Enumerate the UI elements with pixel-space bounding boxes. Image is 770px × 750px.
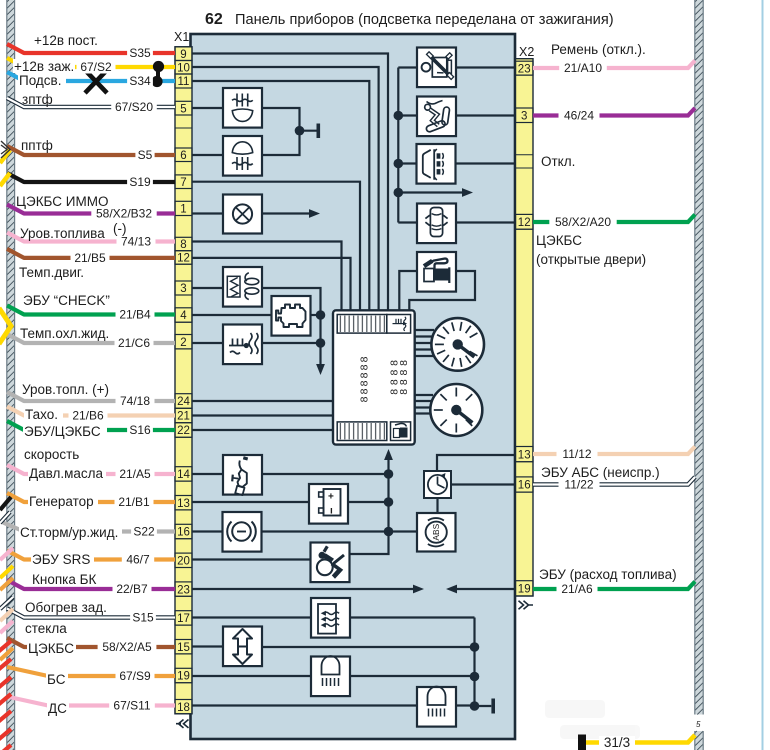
wire fuel right to cluster bbox=[409, 271, 475, 312]
svg-text:8: 8 bbox=[359, 356, 371, 362]
label high beam bbox=[47, 701, 69, 715]
terminal bar bottom bbox=[491, 699, 495, 714]
indicator: fuel pump bbox=[417, 252, 456, 292]
indicator: clock bbox=[424, 471, 451, 498]
wire pin23 outgoing arrow bbox=[192, 588, 414, 590]
indicator: illumination lamp bbox=[223, 195, 262, 234]
svg-text:+: + bbox=[328, 492, 334, 503]
wire pin2 to coolant indicator bbox=[192, 342, 223, 344]
svg-text:11/12: 11/12 bbox=[562, 447, 591, 461]
wire pin1 to illumination lamp bbox=[192, 212, 223, 214]
wire engine indicator to rail bbox=[311, 314, 321, 316]
svg-text:+12в заж.: +12в заж. bbox=[14, 59, 74, 74]
svg-text:скорость: скорость bbox=[24, 447, 79, 462]
label +12v ign bbox=[13, 59, 75, 73]
svg-text:Обогрев зад.: Обогрев зад. bbox=[25, 600, 107, 615]
wire pin7 to cluster bbox=[192, 182, 360, 312]
label 21/B6 bbox=[69, 409, 108, 422]
svg-text:Темп.двиг.: Темп.двиг. bbox=[19, 265, 84, 280]
svg-text:ДС: ДС bbox=[48, 701, 67, 716]
svg-text:46/24: 46/24 bbox=[564, 109, 594, 123]
svg-text:1: 1 bbox=[180, 204, 186, 216]
bus down right bbox=[475, 618, 492, 707]
wire illumination S34 bbox=[7, 72, 175, 81]
svg-text:3: 3 bbox=[521, 111, 527, 123]
svg-text:22: 22 bbox=[177, 425, 190, 437]
wire pin3 to glow indicator bbox=[192, 287, 223, 289]
svg-text:8: 8 bbox=[359, 388, 371, 394]
svg-text:ЭБУ “CHECK”: ЭБУ “CHECK” bbox=[23, 293, 110, 308]
svg-text:зптф: зптф bbox=[22, 92, 53, 107]
svg-text:11: 11 bbox=[178, 76, 190, 88]
modification link ignition to illumination bbox=[156, 67, 160, 82]
instrument cluster unit bbox=[333, 310, 415, 444]
wire junction to terminal bbox=[300, 130, 317, 132]
wire pin8 to cluster bbox=[192, 242, 342, 313]
indicator: brake bbox=[223, 512, 262, 552]
svg-text:Панель приборов (подсветка пер: Панель приборов (подсветка переделана от… bbox=[235, 12, 614, 28]
label 58/X2/B32 bbox=[91, 207, 156, 220]
indicator: seat belt disabled bbox=[417, 48, 456, 88]
svg-text:12: 12 bbox=[518, 217, 531, 229]
label 67/S20 bbox=[111, 101, 157, 114]
svg-text:67/S9: 67/S9 bbox=[119, 669, 151, 683]
label S16 bbox=[127, 424, 153, 437]
svg-text:5: 5 bbox=[696, 720, 701, 729]
indicator: open doors bbox=[417, 204, 456, 244]
svg-text:S35: S35 bbox=[129, 46, 151, 60]
page edge line bbox=[762, 0, 764, 750]
label srs bbox=[31, 552, 94, 566]
indicator: low beam bbox=[311, 656, 350, 696]
right rail down bbox=[397, 68, 399, 223]
wire cekbs 58/X2/A5 bbox=[7, 638, 175, 647]
indicator: coolant temperature bbox=[223, 325, 262, 365]
wire lowbeam indicator to bus bbox=[350, 675, 475, 677]
wire pads to X2 bbox=[456, 162, 516, 164]
svg-text:X2: X2 bbox=[519, 45, 534, 59]
svg-text:S16: S16 bbox=[129, 423, 151, 437]
wire doors left bbox=[398, 221, 417, 223]
svg-text:15: 15 bbox=[177, 642, 190, 654]
svg-text:62: 62 bbox=[205, 11, 223, 28]
svg-text:ЦЭКБС: ЦЭКБС bbox=[28, 641, 74, 656]
wire X2 pin19 incoming arrow bbox=[456, 588, 516, 590]
wire X2 pin3 46/24 bbox=[533, 108, 695, 116]
label generator bbox=[28, 494, 98, 508]
svg-text:21/A6: 21/A6 bbox=[561, 582, 593, 596]
svg-text:10: 10 bbox=[177, 63, 190, 75]
wire battery indicator to rail bbox=[348, 501, 389, 503]
wire brake fluid S22 bbox=[3, 523, 175, 532]
label 21/B5 bbox=[71, 251, 110, 264]
wire +12v battery S35 bbox=[7, 44, 175, 53]
wire X2 pin12 58/X2/A20 bbox=[533, 215, 695, 223]
svg-text:8: 8 bbox=[398, 389, 410, 395]
node rail/coolant bbox=[316, 338, 326, 348]
label 74/13 bbox=[117, 235, 156, 248]
svg-text:46/7: 46/7 bbox=[126, 553, 150, 567]
indicator: front fog lamp bbox=[223, 136, 262, 176]
svg-text:Тахо.: Тахо. bbox=[25, 407, 58, 422]
node rail/battery bbox=[384, 497, 394, 507]
svg-text:24: 24 bbox=[177, 396, 190, 408]
instrument panel unit body bbox=[191, 34, 516, 739]
svg-text:13: 13 bbox=[518, 449, 531, 461]
terminal bar bbox=[316, 124, 320, 139]
svg-text:16: 16 bbox=[518, 480, 531, 492]
label 74/18 bbox=[116, 395, 155, 408]
label 46/7 bbox=[122, 553, 154, 566]
node rail/brake bbox=[384, 527, 394, 537]
wire rear fog 67/S20 bbox=[7, 98, 175, 107]
wire fuel level low 74/13 bbox=[7, 233, 175, 242]
svg-text:21/B1: 21/B1 bbox=[118, 495, 150, 509]
svg-text:67/S2: 67/S2 bbox=[80, 60, 112, 74]
svg-text:Подсв.: Подсв. bbox=[19, 73, 61, 88]
node rail/engine bbox=[316, 310, 326, 320]
wire +12v ignition 67/S2 bbox=[7, 58, 175, 67]
node bus/lowbeam bbox=[470, 672, 480, 682]
wire beltX to rail bbox=[398, 66, 417, 68]
label 58/X2/A5 bbox=[98, 641, 157, 654]
svg-text:14: 14 bbox=[177, 469, 190, 481]
wire pin19 to lowbeam indicator bbox=[192, 675, 311, 677]
svg-text:S5: S5 bbox=[138, 148, 153, 162]
wire X2 pin13 11/12 bbox=[533, 447, 695, 455]
label S5 bbox=[135, 149, 154, 162]
wire pin22 to cluster bbox=[192, 429, 334, 431]
connector X1 bbox=[174, 30, 192, 714]
svg-text:ЭБУ SRS: ЭБУ SRS bbox=[32, 552, 90, 567]
X2 continuation chevrons bbox=[519, 601, 534, 609]
indicator: high beam bbox=[417, 687, 456, 727]
left harness bar bbox=[7, 0, 15, 750]
wire clock to X2 pin13 bbox=[437, 455, 516, 472]
wire X2 pin23 21/A10 bbox=[533, 61, 695, 69]
wire SRS 46/7 bbox=[7, 551, 175, 560]
svg-text:X1: X1 bbox=[174, 30, 189, 44]
svg-text:ЦЭКБС ИММО: ЦЭКБС ИММО bbox=[16, 194, 108, 209]
label 21/A5 bbox=[116, 468, 155, 481]
X1 continuation chevrons bbox=[176, 720, 189, 728]
wire trip button 22/B7 bbox=[7, 580, 175, 589]
wire pin5 to rear-fog lamp bbox=[192, 107, 223, 109]
wire pin12 to cluster bbox=[192, 258, 351, 312]
svg-text:пптф: пптф bbox=[21, 138, 53, 153]
wire low beam 67/S9 bbox=[7, 667, 175, 676]
white edge stub bbox=[0, 512, 10, 523]
svg-text:74/18: 74/18 bbox=[120, 394, 150, 408]
wire fuel level 74/18 bbox=[7, 392, 175, 401]
wire S19 bbox=[7, 173, 175, 182]
indicator: fasten seat belt bbox=[417, 97, 456, 137]
node rail/person bbox=[394, 111, 404, 121]
svg-text:S22: S22 bbox=[133, 525, 155, 539]
svg-text:23: 23 bbox=[518, 63, 531, 75]
svg-text:23: 23 bbox=[177, 584, 190, 596]
wire heater S15 bbox=[7, 609, 175, 618]
disconnect cross bbox=[85, 70, 107, 93]
label cekbs bbox=[27, 641, 76, 655]
wire pads left bbox=[398, 162, 416, 164]
wire front-fog to junction bbox=[262, 131, 300, 155]
cluster to speedometer wires bbox=[415, 329, 435, 331]
svg-text:9: 9 bbox=[180, 49, 186, 61]
wire pin21 to cluster bbox=[192, 414, 334, 416]
wire pin16 to brake indicator bbox=[192, 530, 223, 532]
svg-text:13: 13 bbox=[177, 498, 190, 510]
label oil pressure bbox=[28, 466, 106, 480]
svg-text:6: 6 bbox=[180, 150, 186, 162]
indicator: oil pressure bbox=[223, 455, 262, 495]
label 67/S11 bbox=[109, 699, 155, 712]
svg-text:18: 18 bbox=[177, 702, 190, 714]
svg-text:Уров.топлива: Уров.топлива bbox=[20, 226, 105, 241]
svg-text:22/B7: 22/B7 bbox=[116, 582, 148, 596]
label S22 bbox=[131, 525, 157, 538]
svg-text:ЭБУ/ЦЭКБС: ЭБУ/ЦЭКБС bbox=[24, 424, 101, 439]
wire pin6 to front-fog lamp bbox=[192, 154, 223, 156]
wire tacho 21/B6 bbox=[7, 407, 175, 416]
svg-text:16: 16 bbox=[177, 527, 190, 539]
wire generator 21/B1 bbox=[7, 493, 175, 502]
wire belt person to X2 pin3 bbox=[456, 114, 516, 116]
wire doors to X2 pin12 bbox=[456, 221, 516, 223]
node rail/arrow bbox=[394, 188, 404, 198]
label tacho bbox=[24, 407, 63, 421]
svg-text:ı: ı bbox=[330, 506, 333, 517]
svg-text:8: 8 bbox=[398, 360, 410, 366]
indicator: up/down arrows bbox=[223, 627, 262, 667]
indicator: battery / generator bbox=[309, 484, 348, 524]
indicator: brake pads bbox=[417, 144, 456, 184]
wire heater indicator to bus bbox=[350, 616, 475, 618]
wire check engine 21/B4 bbox=[7, 306, 175, 315]
wire pin14 to oil indicator bbox=[192, 473, 223, 475]
svg-text:21: 21 bbox=[177, 411, 190, 423]
svg-text:стекла: стекла bbox=[25, 621, 67, 636]
svg-text:Ст.торм/ур.жид.: Ст.торм/ур.жид. bbox=[20, 525, 118, 540]
speedometer gauge bbox=[431, 318, 484, 371]
label 21/B1 bbox=[115, 496, 154, 509]
label 22/B7 bbox=[113, 583, 152, 596]
node rail/oil bbox=[384, 469, 394, 479]
svg-text:74/13: 74/13 bbox=[121, 235, 151, 249]
svg-text:19: 19 bbox=[518, 584, 531, 596]
wire pin20 to SRS indicator bbox=[192, 558, 311, 560]
svg-text:8: 8 bbox=[180, 239, 186, 251]
ground wire 31/3 bbox=[578, 735, 586, 750]
wire pin17 to heater indicator bbox=[192, 616, 311, 618]
wire oil pressure 21/A5 bbox=[7, 465, 175, 474]
wire X2 pin16 11/22 bbox=[533, 477, 695, 485]
svg-text:21/B6: 21/B6 bbox=[72, 409, 104, 423]
svg-text:8: 8 bbox=[359, 380, 371, 386]
label S15 bbox=[130, 611, 156, 624]
connector X2 bbox=[516, 45, 535, 596]
svg-text:21/C6: 21/C6 bbox=[118, 336, 150, 350]
wire clock to ABS bbox=[436, 498, 438, 513]
yellow edge stubs top bbox=[0, 150, 10, 163]
label S34 bbox=[127, 75, 153, 88]
label 21/B4 bbox=[116, 308, 155, 321]
indicator: engine (check) bbox=[272, 296, 311, 336]
label 67/S2 bbox=[77, 61, 116, 74]
wire pin4 to engine indicator bbox=[192, 314, 272, 316]
svg-text:8: 8 bbox=[359, 372, 371, 378]
wire brake indicator to ABS bbox=[262, 530, 418, 532]
svg-text:Откл.: Откл. bbox=[541, 154, 575, 169]
svg-text:31/3: 31/3 bbox=[604, 735, 630, 750]
node rail/pads bbox=[394, 159, 404, 169]
wire pin18 to highbeam indicator bbox=[192, 704, 417, 706]
svg-text:Давл.масла: Давл.масла bbox=[29, 466, 104, 481]
svg-text:20: 20 bbox=[177, 556, 190, 568]
svg-text:ЭБУ АБС (неиспр.): ЭБУ АБС (неиспр.) bbox=[541, 465, 660, 480]
wire high beam 67/S11 bbox=[7, 697, 175, 706]
svg-text:Ремень (откл.).: Ремень (откл.). bbox=[551, 42, 646, 57]
svg-text:21/B5: 21/B5 bbox=[74, 251, 106, 265]
faint watermark bbox=[545, 700, 640, 739]
svg-text:S19: S19 bbox=[129, 175, 151, 189]
label 67/S9 bbox=[116, 670, 155, 683]
cluster to tachometer wires bbox=[415, 394, 434, 396]
edge wire stubs bbox=[0, 548, 13, 560]
label illumination bbox=[18, 73, 66, 87]
svg-text:S34: S34 bbox=[129, 74, 151, 88]
svg-text:67/S20: 67/S20 bbox=[115, 100, 153, 114]
svg-text:Кнопка БК: Кнопка БК bbox=[32, 572, 96, 587]
indicator: SRS airbag bbox=[311, 543, 350, 583]
wire speed S16 bbox=[7, 421, 175, 430]
wire 21/B5 bbox=[7, 249, 175, 258]
wire belt person left bbox=[398, 114, 417, 116]
outgoing arrow row bbox=[398, 191, 463, 193]
wire SRS indicator to rail bbox=[350, 532, 389, 555]
wire coolant indicator to rail bbox=[262, 342, 321, 344]
svg-text:(-): (-) bbox=[113, 221, 127, 236]
yellow chevron bbox=[0, 308, 11, 344]
wire glow indicator to rail bbox=[262, 288, 321, 366]
right harness bar bbox=[695, 0, 703, 715]
wire clock to X2 pin16 bbox=[451, 483, 516, 485]
black chevron bbox=[1, 141, 10, 158]
wire arrows indicator to bus bbox=[262, 646, 475, 648]
svg-text:17: 17 bbox=[177, 613, 190, 625]
label 21/C6 bbox=[115, 337, 154, 350]
svg-text:19: 19 bbox=[177, 671, 190, 683]
wire coolant temp 21/C6 bbox=[7, 334, 175, 343]
wire pin11 to cluster bbox=[192, 81, 369, 312]
label brake fluid bbox=[19, 525, 122, 539]
indicator: heated rear window bbox=[311, 598, 350, 638]
indicator: rear fog lamp bbox=[223, 88, 262, 128]
svg-text:Темп.охл.жид.: Темп.охл.жид. bbox=[20, 326, 109, 341]
node bus/highbeam bbox=[470, 701, 480, 711]
svg-text:21/A10: 21/A10 bbox=[564, 61, 602, 75]
svg-text:(открытые двери): (открытые двери) bbox=[536, 252, 646, 267]
wire pin10 to cluster bbox=[192, 67, 379, 312]
svg-text:ЭБУ (расход топлива): ЭБУ (расход топлива) bbox=[539, 567, 677, 582]
wire pin24 to cluster bbox=[192, 400, 334, 402]
svg-text:12: 12 bbox=[177, 253, 190, 265]
svg-text:+12в пост.: +12в пост. bbox=[34, 33, 98, 48]
svg-text:8: 8 bbox=[359, 364, 371, 370]
svg-text:Генератор: Генератор bbox=[29, 494, 94, 509]
node bus/arrows bbox=[470, 642, 480, 652]
indicator: glow plug / ballast bbox=[223, 267, 262, 307]
wire pin9 to cluster bbox=[192, 54, 388, 313]
wire immo 58/X2/B32 bbox=[7, 205, 175, 214]
indicator: ABS bbox=[417, 513, 456, 552]
svg-text:ЦЭКБС: ЦЭКБС bbox=[536, 233, 582, 248]
svg-text:4: 4 bbox=[180, 310, 187, 322]
wire pin15 to arrows indicator bbox=[192, 645, 223, 647]
svg-text:5: 5 bbox=[180, 103, 186, 115]
svg-text:ABS: ABS bbox=[431, 523, 441, 540]
svg-text:21/B4: 21/B4 bbox=[119, 308, 151, 322]
svg-text:7: 7 bbox=[180, 177, 186, 189]
svg-text:67/S11: 67/S11 bbox=[113, 699, 150, 713]
wire illumination lamp arrow bbox=[262, 212, 310, 214]
svg-text:8: 8 bbox=[398, 379, 410, 385]
red edge stripes bbox=[0, 641, 11, 652]
label low beam bbox=[46, 672, 68, 686]
wire oil indicator to rail bbox=[262, 473, 389, 475]
svg-text:21/A5: 21/A5 bbox=[119, 467, 151, 481]
node fog junction bbox=[295, 126, 305, 136]
svg-text:БС: БС bbox=[47, 672, 66, 687]
rail with up arrow bbox=[387, 457, 389, 532]
label S35 bbox=[127, 47, 153, 60]
black edge stub bbox=[0, 497, 11, 510]
label S19 bbox=[127, 176, 153, 189]
svg-text:8: 8 bbox=[398, 370, 410, 376]
wire front fog S5 bbox=[7, 146, 175, 155]
svg-text:58/X2/A5: 58/X2/A5 bbox=[102, 640, 152, 654]
svg-text:8: 8 bbox=[359, 396, 371, 402]
wire highbeam indicator to bus bbox=[456, 704, 475, 706]
svg-text:S15: S15 bbox=[132, 611, 154, 625]
tachometer gauge bbox=[430, 384, 482, 436]
wire pin13 to battery indicator bbox=[192, 501, 309, 503]
svg-text:Уров.топл. (+): Уров.топл. (+) bbox=[22, 382, 109, 397]
svg-text:3: 3 bbox=[180, 283, 186, 295]
wire rear-fog to junction bbox=[262, 108, 300, 131]
label speed bbox=[23, 424, 107, 438]
wire beltX to X2 pin23 bbox=[456, 66, 516, 68]
svg-text:58/X2/A20: 58/X2/A20 bbox=[555, 215, 611, 229]
wire fuel left to cluster bbox=[399, 271, 417, 312]
wire X2 pin19 21/A6 bbox=[533, 582, 695, 590]
svg-text:2: 2 bbox=[180, 337, 186, 349]
